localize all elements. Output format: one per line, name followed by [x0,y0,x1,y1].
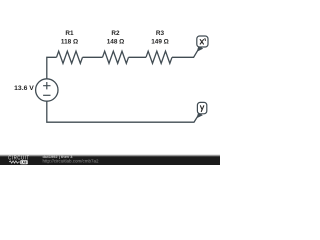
node flag y [197,102,207,118]
wire top-left from source to R1 [47,57,57,79]
resistor R1 [57,51,83,63]
svg-text:149 Ω: 149 Ω [151,38,169,45]
svg-text:148 Ω: 148 Ω [107,38,125,45]
logo zigzag [9,161,20,163]
wire R3 to node x' [172,48,199,57]
svg-text:13.6 V: 13.6 V [14,85,34,92]
resistor R2 [103,51,129,63]
svg-text:LAB: LAB [21,160,27,165]
wire R1 to R2 [83,56,103,58]
svg-text:R2: R2 [111,30,120,37]
svg-text:http://circuitlab.com/cmb7a2: http://circuitlab.com/cmb7a2 [43,159,100,164]
svg-text:R3: R3 [156,30,165,37]
logo LAB box [20,160,27,164]
svg-text:118 Ω: 118 Ω [61,38,78,45]
node flag x' [197,36,208,52]
wire R2 to R3 [129,56,147,58]
svg-text:R1: R1 [65,30,74,37]
voltage source V1 [36,79,58,101]
wire source bottom [47,101,199,122]
resistor R3 [146,51,172,63]
